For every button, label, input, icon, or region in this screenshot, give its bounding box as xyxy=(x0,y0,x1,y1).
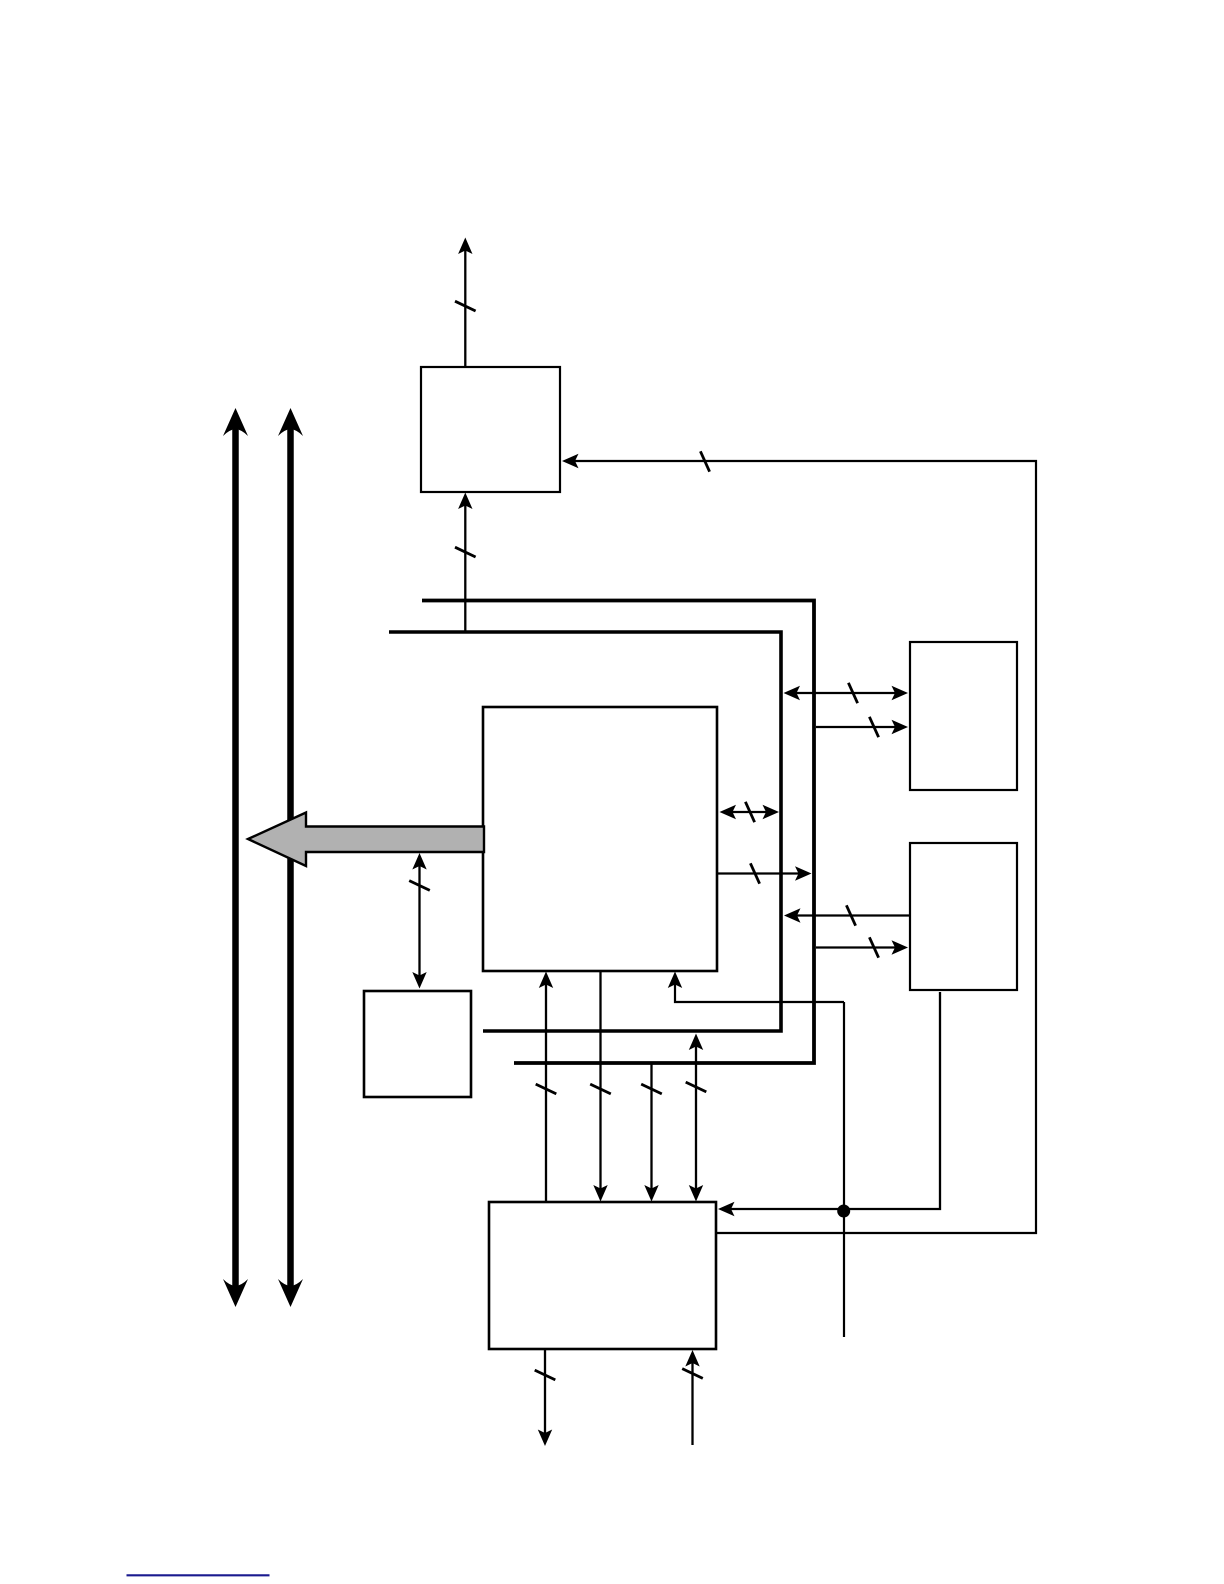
wire: box C to inner bus arrow with slash xyxy=(784,905,910,925)
wire: outer bus down into bottom box with slash xyxy=(641,1063,662,1202)
block: bottom control box xyxy=(489,1202,716,1349)
block: central processor box xyxy=(483,707,717,971)
wire: central box down into bottom box with slash xyxy=(590,971,611,1202)
wire: box C down and left into bottom box xyxy=(718,992,940,1216)
block: lower right box C xyxy=(910,843,1017,990)
wire: vertical stub down from L line xyxy=(843,1002,845,1337)
wire: bottom box output down with slash xyxy=(535,1349,556,1446)
junction dot xyxy=(837,1205,850,1218)
wire: outer bus to box C arrow with slash xyxy=(816,937,908,957)
bus: inner thick bus (top, right vertical, bottom) xyxy=(389,632,781,1031)
wire: central box to outer bus arrow with slash xyxy=(717,863,812,883)
block arrow: gray data bus arrow pointing left xyxy=(248,813,484,867)
wire: vertical double arrow between gray bus and small box with slash xyxy=(409,853,430,989)
bus arrow: left vertical system bus 1 xyxy=(223,408,248,1307)
wire: box A output up with slash xyxy=(455,238,476,368)
wire: feedback from bottom box right up and into box A with slash xyxy=(562,451,1036,1233)
block: small lower-left box xyxy=(364,991,471,1097)
bus: outer thick bus (top, right vertical, bottom) xyxy=(422,601,814,1064)
wire: input up into bottom box with slash xyxy=(682,1350,703,1445)
block: top interface box A xyxy=(421,367,560,492)
block: upper right box B xyxy=(910,642,1017,790)
wire: outer bus to box B arrow with slash xyxy=(816,717,908,737)
footer rule (blue) xyxy=(127,1574,270,1576)
bus arrow: left vertical system bus 2 xyxy=(278,408,303,1307)
wire: inner bus up into box A with slash xyxy=(455,493,476,633)
wire: bottom box up into central box with slash xyxy=(536,972,557,1203)
wire: L line up into central box bottom xyxy=(668,972,844,1003)
wire: inner bus to box B double arrow with slash xyxy=(784,683,909,703)
wire: central box to inner bus double arrow with slash xyxy=(720,802,780,822)
wire: bottom box up into inner bus, arrows both ends, with slash xyxy=(686,1034,707,1202)
